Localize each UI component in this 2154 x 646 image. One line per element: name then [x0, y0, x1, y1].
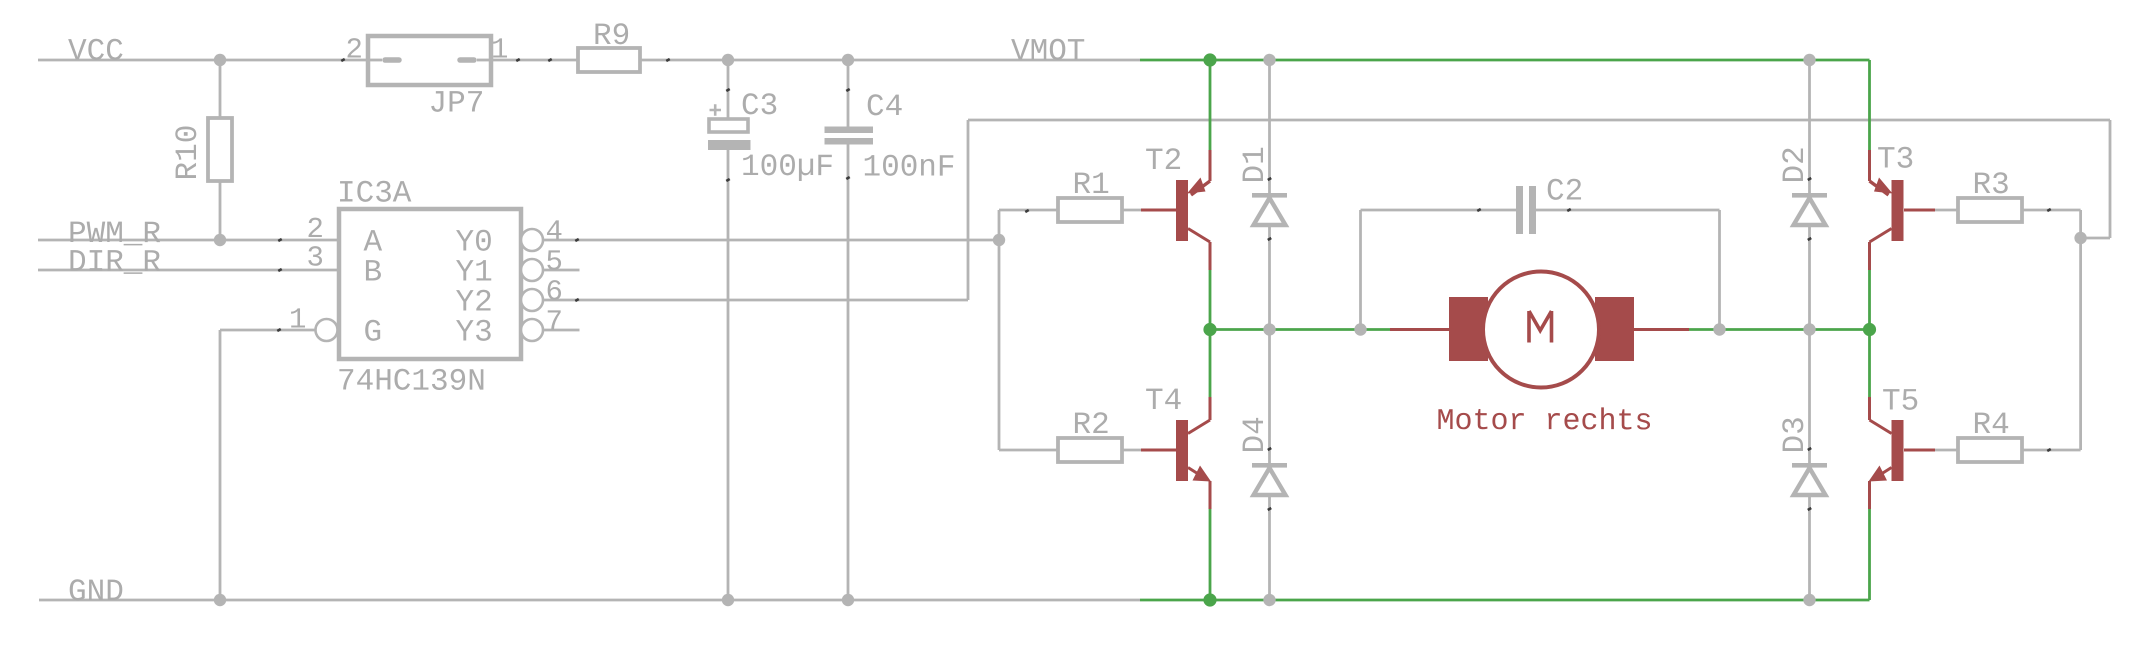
wire T2 collector column green upper — [1209, 60, 1212, 151]
svg-text:T4: T4 — [1145, 384, 1182, 419]
node right bus junction — [2074, 232, 2086, 244]
diode D3 — [1792, 463, 1827, 495]
IC3A pin 7 circle — [521, 319, 543, 341]
svg-text:VMOT: VMOT — [1011, 35, 1085, 70]
svg-text:6: 6 — [545, 276, 562, 309]
node C2 right motor row junction — [1713, 323, 1725, 335]
wire GND green rail — [1140, 599, 1870, 602]
svg-text:Y3: Y3 — [455, 316, 492, 351]
svg-text:D2: D2 — [1778, 146, 1813, 183]
diode D4 — [1252, 463, 1287, 495]
wire motor row green right — [1689, 328, 1870, 331]
svg-text:5: 5 — [545, 246, 562, 279]
node C3 GND junction — [722, 594, 734, 606]
node D3 GND junction — [1803, 594, 1815, 606]
svg-text:D3: D3 — [1778, 416, 1813, 453]
resistor R10 — [208, 118, 232, 181]
svg-text:3: 3 — [306, 242, 323, 275]
svg-text:T5: T5 — [1882, 385, 1919, 420]
wire T3 base to R3 — [1935, 209, 1958, 212]
svg-text:Motor rechts: Motor rechts — [1436, 405, 1652, 439]
wire R4 right lead — [2022, 449, 2081, 452]
wire C2 left horizontal — [1361, 209, 1517, 212]
IC3A pin 4 circle — [521, 229, 543, 251]
jumper JP7 — [368, 36, 491, 85]
IC3A pin 5 circle — [521, 259, 543, 281]
wire D2 D3 vertical x1809 — [1808, 60, 1811, 600]
svg-text:T2: T2 — [1145, 144, 1182, 179]
wire C4 top lead — [847, 60, 850, 127]
node D2/VMOT junction — [1803, 54, 1815, 66]
svg-text:R3: R3 — [1972, 168, 2009, 203]
svg-text:IC3A: IC3A — [337, 177, 412, 212]
resistor R9 — [578, 48, 640, 72]
node D4 GND junction — [1263, 594, 1275, 606]
svg-text:D1: D1 — [1238, 146, 1273, 183]
wire C2 right vertical — [1718, 210, 1721, 330]
wire R1 right to T2 — [1122, 209, 1141, 212]
wire right edge drop at x2110 — [2109, 120, 2112, 238]
node C2 left motor row junction — [1354, 323, 1366, 335]
wire PWM_R row — [38, 239, 339, 242]
svg-text:100µF: 100µF — [741, 150, 834, 185]
svg-text:R10: R10 — [171, 125, 206, 181]
wire C4 bottom lead to GND — [847, 144, 850, 600]
wire JP7 pin1 to R9 — [491, 59, 578, 62]
transistor T2 — [1176, 150, 1210, 270]
wire y238 into right bus — [2081, 237, 2110, 240]
node C3/VCC junction — [722, 54, 734, 66]
transistor T3 — [1870, 150, 1904, 270]
wire R1 R2 branch vertical x999 — [998, 210, 1001, 450]
wire IC pin7 stub — [543, 329, 580, 332]
node motor row left junction green — [1203, 323, 1216, 336]
node D1/VMOT junction — [1263, 54, 1275, 66]
wire T5 base stub red — [1904, 449, 1935, 452]
wire DIR_R row — [38, 269, 339, 272]
IC3A pin 1 inversion bubble — [316, 319, 338, 341]
node D3 motor row junction — [1803, 323, 1815, 335]
wire T3 base stub red — [1904, 209, 1935, 212]
wire VMOT right drop green — [1868, 60, 1871, 151]
wire T3-T5 mid column green — [1868, 270, 1871, 397]
node R10/VCC junction — [214, 54, 226, 66]
wire R2 left lead — [999, 449, 1058, 452]
svg-text:R4: R4 — [1972, 408, 2009, 443]
resistor R2 — [1058, 438, 1122, 462]
svg-text:2: 2 — [345, 34, 362, 67]
svg-text:C4: C4 — [866, 90, 903, 125]
wire pin6 riser at x968 — [967, 120, 970, 300]
wire VCC rail gray segment — [38, 59, 368, 62]
wire IC3A pin1 vertical to GND — [219, 330, 222, 600]
svg-text:C3: C3 — [741, 89, 778, 124]
wire T5 base to R4 — [1935, 449, 1958, 452]
svg-text:R2: R2 — [1072, 408, 1109, 443]
motor M Motor rechts — [1449, 272, 1634, 388]
wire T2 base stub red — [1141, 209, 1176, 212]
capacitor C4 — [825, 127, 874, 145]
wire VMOT green rail — [1140, 59, 1870, 62]
capacitor C3 polarized — [708, 104, 751, 150]
capacitor C2 — [1516, 186, 1536, 234]
wire T2-T4 mid column green — [1209, 270, 1212, 397]
node GND T4 junction green — [1203, 593, 1216, 606]
svg-text:R1: R1 — [1072, 168, 1109, 203]
resistor R1 — [1058, 198, 1122, 222]
diode D2 — [1792, 193, 1827, 225]
wire right bus vertical x2080 — [2079, 210, 2082, 450]
svg-text:G: G — [363, 316, 382, 351]
diode D1 — [1252, 193, 1287, 225]
node motor row right junction green — [1863, 323, 1876, 336]
svg-text:74HC139N: 74HC139N — [337, 365, 486, 400]
IC3A pin 6 circle — [521, 289, 543, 311]
wire IC pin5 stub — [543, 269, 580, 272]
svg-text:7: 7 — [545, 306, 562, 339]
wire motor row green left — [1210, 328, 1390, 331]
resistor R4 — [1958, 438, 2022, 462]
svg-text:D4: D4 — [1238, 416, 1273, 453]
wire R9 to VMOT transition — [640, 59, 1140, 62]
wire R3 right lead — [2022, 209, 2081, 212]
transistor T4 — [1176, 397, 1211, 509]
wire motor right pin red — [1633, 328, 1689, 331]
wire C2 left vertical — [1359, 210, 1362, 330]
op-amp IC3A 74HC139N box — [339, 209, 521, 359]
node R10 GND junction — [214, 594, 226, 606]
wire C3 bottom lead to GND — [727, 150, 730, 600]
svg-text:B: B — [363, 256, 382, 291]
svg-text:VCC: VCC — [68, 35, 124, 70]
wire C2 right horizontal — [1536, 209, 1720, 212]
node PWM_R/R10 junction — [214, 234, 226, 246]
svg-text:GND: GND — [68, 575, 124, 610]
svg-text:JP7: JP7 — [428, 87, 484, 122]
wire R2 right to T4 — [1122, 449, 1141, 452]
wire R10 bottom lead to PWM_R node — [219, 181, 222, 240]
wire GND rail gray segment — [39, 599, 1140, 602]
svg-text:1: 1 — [289, 304, 306, 337]
svg-text:C2: C2 — [1546, 175, 1583, 210]
node C4/VCC junction — [842, 54, 854, 66]
wire IC pin6 row — [543, 299, 968, 302]
resistor R3 — [1958, 198, 2022, 222]
node D1 motor row junction — [1263, 323, 1275, 335]
svg-text:100nF: 100nF — [862, 151, 955, 186]
pin endpoint ticks — [277, 58, 2052, 511]
wire T4 emitter column green lower — [1209, 509, 1212, 600]
wire D1 D4 vertical x1269 — [1268, 60, 1271, 600]
svg-text:T3: T3 — [1877, 143, 1914, 178]
wire y120 long horizontal — [968, 119, 2110, 122]
node VMOT T2 junction green — [1203, 53, 1216, 66]
wire C3 top lead — [727, 60, 730, 120]
wire IC3A pin1 G horizontal — [220, 329, 316, 332]
wire T4 base stub red — [1141, 449, 1176, 452]
svg-text:4: 4 — [545, 216, 562, 249]
wire R10 top lead — [219, 60, 222, 118]
wire motor left pin red — [1390, 328, 1449, 331]
transistor T5 — [1869, 397, 1904, 509]
svg-text:DIR_R: DIR_R — [68, 246, 161, 281]
svg-text:1: 1 — [491, 34, 508, 67]
wire T5 emitter column green lower — [1868, 509, 1871, 600]
node C4 GND junction — [842, 594, 854, 606]
node R1/R2 branch junction — [993, 234, 1005, 246]
svg-text:R9: R9 — [593, 19, 630, 54]
wire R1 left lead — [999, 209, 1058, 212]
wire IC pin4 row to junction — [543, 239, 999, 242]
